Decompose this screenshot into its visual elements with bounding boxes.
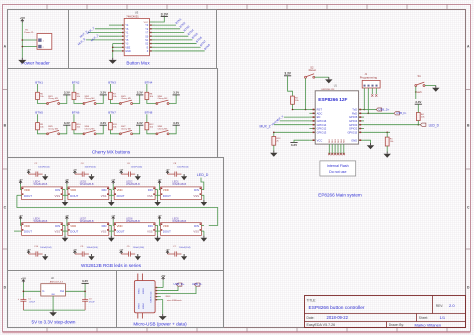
wire [96,125,103,134]
svg-text:3.3V: 3.3V [100,91,106,95]
wire [315,76,329,78]
wire [74,130,84,134]
svg-text:DOUT: DOUT [70,230,78,234]
wire led row2 end [14,230,19,232]
svg-text:C9: C9 [80,246,84,248]
junction [23,291,25,293]
wire [64,190,66,196]
svg-text:Marko Viitanen: Marko Viitanen [415,323,442,328]
power flag +5V [20,16,25,22]
svg-text:VSS: VSS [193,230,199,234]
svg-text:VSS: VSS [147,194,153,198]
resistor R8 [145,92,154,99]
svg-text:C2: C2 [34,163,38,165]
wire [60,125,67,134]
svg-text:DIN: DIN [102,188,107,192]
svg-text:BTN2: BTN2 [72,80,80,84]
net label LED_D (leds) [197,173,209,177]
wire rxd to header [364,94,368,113]
switch S2 Reset [305,66,317,79]
svg-text:RST: RST [317,108,323,112]
switch SW4 Cherry MX [156,96,169,105]
wire txd to header [363,94,365,110]
esp sdio pin names [329,138,346,143]
svg-text:AMS1117-3.3: AMS1117-3.3 [50,280,64,283]
wire [133,95,140,104]
svg-text:VDD: VDD [163,188,169,192]
svg-text:GPIO4: GPIO4 [349,119,358,123]
resistor R2 10k [291,96,300,104]
svg-text:GPIO5: GPIO5 [349,115,358,119]
wire [364,109,376,111]
esp pins [309,108,364,143]
wire [157,190,159,196]
svg-text:VDD: VDD [117,224,123,228]
svg-text:3.3V: 3.3V [173,121,179,125]
junction [418,124,420,126]
svg-text:Out: Out [60,289,64,293]
svg-text:EasyEDA V5.7.26: EasyEDA V5.7.26 [307,323,336,327]
regulator U2 AMS1117-3.3 [41,278,66,296]
wire led serpentine [17,195,218,225]
switch S1 Flash [415,74,425,94]
net labels MUX_X MUX_Y MUX_Z [77,26,100,46]
svg-text:ADC: ADC [317,111,323,115]
border zone ticks top [47,4,447,9]
svg-text:DIN: DIN [55,224,60,228]
svg-text:BTN1: BTN1 [35,80,43,84]
resistor R1 10k [385,137,394,146]
svg-text:GPIO2: GPIO2 [349,127,358,131]
wire [146,84,148,92]
mux pin VCC [144,17,165,25]
power flag 3.3V [100,121,107,125]
title block title value [309,305,365,311]
resistor R10 [72,123,81,130]
ground [154,195,161,206]
svg-text:GND: GND [351,138,357,142]
svg-text:MUX_Z: MUX_Z [260,125,271,129]
ground [384,152,391,158]
svg-text:DIN: DIN [102,224,107,228]
wire gnd [364,140,371,143]
svg-text:5V to 3.3V step-down: 5V to 3.3V step-down [32,319,76,324]
connector H1 Power [24,29,52,49]
svg-text:470uF: 470uF [89,301,95,303]
ground [325,77,332,83]
wire [386,132,388,151]
svg-text:WS2812B-B: WS2812B-B [126,183,140,186]
svg-text:DIN: DIN [148,224,153,228]
wire [110,190,112,196]
svg-text:USB_D-: USB_D- [396,111,406,115]
capacitor C2 [31,163,50,177]
power flag 3.3V vcc [290,143,297,147]
svg-text:C7: C7 [173,246,177,248]
wire [21,23,23,58]
wire [417,104,419,125]
svg-text:C6: C6 [127,163,131,165]
svg-text:BTN4: BTN4 [145,80,153,84]
switch SW2 Cherry MX [83,96,96,105]
capacitor C9 [77,246,98,257]
svg-text:B: B [4,123,7,127]
wire [368,112,394,114]
wire [169,95,176,104]
wire [305,78,307,109]
svg-text:3.3V: 3.3V [284,72,291,76]
resistor R5 [36,92,45,99]
switch SW7 Cherry MX [119,126,132,135]
svg-text:Cherry MX: Cherry MX [85,97,96,100]
svg-text:REV:: REV: [436,304,443,308]
internal flash note box [320,161,356,176]
svg-text:USB Female: USB Female [151,290,153,302]
WS2812B LED6 [22,218,63,236]
wire btn fan [155,25,205,51]
capacitor C4 [77,163,96,177]
section box Micro-USB [117,271,224,328]
ground [367,143,374,149]
svg-text:MSD2: MSD2 [143,287,145,293]
wire [22,39,37,41]
capacitor C3 470uF [82,298,95,310]
svg-text:WS2812B RGB leds in series: WS2812B RGB leds in series [81,263,142,268]
wire [37,84,39,92]
ground [135,174,141,180]
svg-text:DOUT: DOUT [117,194,125,198]
svg-text:DOUT: DOUT [70,194,78,198]
svg-text:VEE: VEE [125,46,130,49]
net label BTN5 [35,111,43,115]
WS2812B LED2 [114,180,155,199]
wire led chain in [201,178,204,190]
wire [37,114,39,122]
label Cherry MX buttons [92,150,131,155]
wire [288,76,293,96]
esp bottom sdio pins [328,144,345,155]
svg-text:GPIO0: GPIO0 [349,123,358,127]
wire [147,100,157,104]
power flag +5V [65,215,69,225]
svg-text:1: 1 [43,40,44,42]
net label BTN8 [145,111,153,115]
svg-text:S1: S1 [418,74,422,78]
junction [368,113,370,115]
wire [161,280,163,287]
wire [112,225,158,231]
power flag +5V [161,275,166,280]
switch SW1 Cherry MX [47,96,60,105]
label WS2812B RGB leds in series [81,263,142,268]
svg-text:Button Mux: Button Mux [126,60,150,65]
wire [38,130,48,134]
wire [147,130,157,134]
svg-text:3.3V: 3.3V [161,12,169,16]
wire [169,125,176,134]
power flag +5V [166,250,170,254]
ground [108,231,115,242]
capacitor C5 [124,246,145,257]
svg-text:BTN8: BTN8 [145,111,153,115]
svg-text:GPIO12: GPIO12 [317,127,327,131]
resistor R12 [145,123,154,130]
svg-text:VCC: VCC [317,138,323,142]
resistor R11 [109,123,118,130]
svg-text:3.3V: 3.3V [415,100,421,104]
svg-text:3.3V: 3.3V [82,279,88,283]
svg-text:DOUT: DOUT [163,230,171,234]
svg-text:Cherry MX: Cherry MX [157,97,168,100]
svg-text:micro USBFemale: micro USBFemale [167,300,182,302]
title block Date [307,315,349,320]
svg-text:Reset: Reset [309,68,317,72]
wire [73,84,75,92]
switch SW3 Cherry MX [119,96,132,105]
svg-text:C: C [4,205,7,209]
WS2812B LED5 [161,218,202,236]
IC U3 74HC4051 body [124,18,149,55]
svg-text:EN: EN [317,115,321,119]
wire [73,114,75,122]
svg-text:BTN7: BTN7 [108,111,116,115]
svg-text:3.3V: 3.3V [291,143,297,147]
net label USB_D+ (esp) [376,107,390,111]
svg-text:DOUT: DOUT [24,194,32,198]
ground [109,58,117,64]
capacitor C6 [124,163,143,177]
header J1 Programming [360,73,380,88]
zone letters [4,44,470,289]
label 5V to 3.3V step-down [32,319,76,324]
wire [23,283,40,298]
power flag +5V [111,180,115,190]
wire [425,85,436,87]
title block TITLE [307,298,317,302]
USB connector J3 micro USB female [134,274,155,319]
svg-text:C4: C4 [81,163,85,165]
svg-text:3.3V: 3.3V [64,91,70,95]
label Power header [21,60,50,65]
ground [135,254,141,260]
capacitor C10 [31,246,52,257]
wire [273,145,275,150]
svg-text:WS2812B-B: WS2812B-B [172,183,186,186]
resistor R13 2k [272,137,281,146]
label Button Mux [126,60,150,65]
svg-text:100nF(104): 100nF(104) [87,247,99,249]
svg-text:U1: U1 [334,84,338,87]
wire mux row0 [109,24,119,26]
usb pin labels [165,296,181,302]
svg-text:2018-09-22: 2018-09-22 [327,315,349,320]
wire [19,190,65,196]
svg-text:Cherry MX: Cherry MX [85,128,96,131]
label EP8266 Main system [318,193,362,198]
resistor R6 [72,92,81,99]
label Micro-USB (power + data) [133,321,187,326]
wire mux select [86,29,119,40]
net label USB_D- (usb) [192,282,202,286]
svg-text:Sheet:: Sheet: [419,316,428,320]
wire [157,225,159,231]
usb pins [155,287,161,301]
svg-text:LED_D: LED_D [197,173,209,177]
ground [62,195,69,206]
wire [364,131,390,133]
svg-text:Cherry MX: Cherry MX [48,128,59,131]
section box Power header [8,10,69,69]
svg-text:3.3V: 3.3V [173,91,179,95]
svg-text:1/1: 1/1 [440,315,446,320]
svg-text:USB_D+: USB_D+ [378,107,389,111]
wire [65,225,111,231]
svg-text:VBUS: VBUS [165,296,171,298]
svg-text:MSD3: MSD3 [139,302,141,308]
svg-text:GPIO14: GPIO14 [317,123,327,127]
svg-text:D: D [4,285,7,289]
wire [52,296,54,310]
ground [42,174,48,180]
net label USB_D- (esp) [394,111,407,115]
wire [112,190,158,196]
svg-text:Date:: Date: [307,316,315,320]
svg-text:B: B [467,123,470,127]
ground [270,151,277,157]
svg-text:100nF(104): 100nF(104) [131,166,143,168]
wire [274,132,310,136]
power flag +5V [119,170,123,174]
wire [293,104,310,109]
esp U1 designator [334,84,338,87]
title block Sheet [419,315,446,320]
border zone ticks left-right [3,90,471,250]
svg-text:WS2812B-B: WS2812B-B [34,183,48,186]
wire [74,100,84,104]
svg-text:GND: GND [125,50,131,53]
section box WS2812B leds [8,158,224,271]
svg-text:USB_D+: USB_D+ [174,282,185,286]
net label USB_D+ (usb) [174,282,185,286]
power flag 3.3V out [82,279,89,283]
net label BTN2 [72,80,80,84]
wire [65,283,85,297]
svg-text:C10: C10 [34,246,39,248]
wire [158,190,204,196]
net label LED_D (esp) [420,123,439,127]
WS2812B LED4 [22,180,63,199]
power flag 3.3V mux [161,12,169,16]
svg-text:C: C [467,205,470,209]
svg-text:VSS: VSS [54,230,60,234]
svg-text:Drawn By:: Drawn By: [389,323,404,327]
wire [22,46,37,48]
svg-text:3.3V: 3.3V [100,121,106,125]
svg-text:MSD4: MSD4 [143,302,145,308]
svg-text:Do not use: Do not use [329,170,346,174]
svg-text:Internal Flash: Internal Flash [327,164,349,168]
svg-text:3.3V: 3.3V [137,121,143,125]
junction [364,109,366,111]
svg-text:VSS: VSS [54,194,60,198]
power flag 3.3V [136,121,143,125]
junction [22,39,24,47]
ground [88,254,94,260]
ground [108,195,115,206]
svg-text:100nF(104): 100nF(104) [179,247,191,249]
power flag +5V [19,180,23,190]
svg-text:100nF(104): 100nF(104) [38,166,50,168]
svg-text:10k: 10k [113,127,117,129]
wire [109,84,111,92]
net label MUX_X [275,115,284,123]
wire [274,124,309,126]
junction [292,109,307,111]
svg-text:VDD: VDD [24,188,30,192]
net label BTN7 [108,111,116,115]
svg-text:WS2812B-B: WS2812B-B [80,183,94,186]
ground [159,314,167,320]
wire usb data+ [161,286,178,290]
wire [65,190,111,196]
svg-text:DIN: DIN [148,188,153,192]
power flag 3.3V [63,121,70,125]
ground [181,254,187,260]
ground [181,174,187,180]
svg-text:100nF(104): 100nF(104) [177,166,189,168]
IC U1 ESP8266 12F body [315,91,358,144]
WS2812B LED8 [114,218,155,236]
svg-text:LED_D: LED_D [429,123,440,127]
WS2812B LED1 [161,180,202,199]
svg-text:2: 2 [43,47,44,49]
wire [110,225,112,231]
switch SW8 Cherry MX [156,126,169,135]
ground [62,231,69,242]
svg-text:Programming: Programming [360,76,378,80]
net label BTN4 [145,80,153,84]
svg-text:Cherry MX: Cherry MX [121,128,132,131]
switch SW5 Cherry MX [47,126,60,135]
svg-text:BTN3: BTN3 [108,80,116,84]
power flag +5V [19,215,23,225]
WS2812B LED7 [68,218,109,236]
wire [19,225,65,231]
wire [146,114,148,122]
wire [60,95,67,104]
net label BTN6 [72,111,80,115]
junction [386,132,388,134]
wire [96,95,103,104]
power flag +5V [158,215,162,225]
wire [110,100,120,104]
svg-text:100nF(104): 100nF(104) [85,166,97,168]
svg-text:Cherry MX: Cherry MX [157,128,168,131]
power flag +5V [27,250,31,254]
svg-text:U3: U3 [135,11,139,15]
wire bottom bus [23,309,85,311]
svg-text:Power PL: Power PL [24,31,34,34]
svg-text:VDD: VDD [163,224,169,228]
wire [133,125,140,134]
svg-text:ESP8266 button controller: ESP8266 button controller [309,305,365,311]
svg-text:BTN5: BTN5 [35,111,43,115]
wire mux ground [113,44,119,58]
svg-text:VSS: VSS [101,194,107,198]
mux pins [119,24,156,53]
svg-text:VDD: VDD [117,188,123,192]
power flag 3.3V [136,91,143,95]
